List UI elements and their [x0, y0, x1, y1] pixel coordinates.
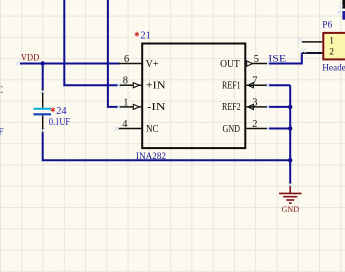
svg-text:-IN: -IN — [147, 102, 166, 113]
svg-text:2: 2 — [329, 48, 334, 58]
wire REF1 to bus — [268, 84, 290, 86]
connector P6 — [322, 20, 345, 72]
svg-text:REF2: REF2 — [222, 102, 241, 113]
wire capacitor bottom to GND rail — [43, 133, 291, 160]
marker P6 pin 2 joint — [301, 49, 305, 53]
node VDD junction — [41, 61, 45, 65]
svg-text:INA282: INA282 — [136, 151, 167, 161]
svg-text:GND: GND — [282, 204, 299, 214]
pin 7 REF1 — [222, 76, 268, 92]
svg-text:1: 1 — [329, 36, 334, 46]
svg-text:NC: NC — [146, 124, 159, 135]
cut-off component top right navy — [342, 11, 345, 20]
svg-text:0.1UF: 0.1UF — [49, 117, 71, 128]
marker VDD wire end — [15, 61, 19, 65]
ground symbol GND — [279, 183, 302, 214]
svg-text:V+: V+ — [146, 59, 159, 70]
pin 6 V+ — [119, 54, 159, 70]
svg-text:P6: P6 — [322, 20, 332, 30]
svg-text:GND: GND — [223, 124, 241, 135]
pin 1 -IN — [119, 97, 166, 113]
marker pin 4 end — [114, 126, 118, 130]
wire OUT to ISE net — [268, 53, 322, 64]
capacitor C24 — [34, 89, 52, 134]
svg-text:OUT: OUT — [220, 59, 240, 70]
svg-text:+IN: +IN — [146, 81, 166, 92]
pin 5 OUT — [220, 54, 268, 70]
part name INA282 — [136, 151, 167, 161]
svg-text:6: 6 — [124, 54, 129, 65]
cut-off text C left edge — [0, 85, 3, 95]
svg-text:7: 7 — [252, 76, 257, 87]
svg-text:1: 1 — [123, 97, 128, 108]
marker pin 5 wire joint — [266, 61, 270, 65]
svg-text:REF1: REF1 — [222, 81, 241, 92]
net label VDD — [21, 52, 39, 63]
svg-text:8: 8 — [123, 76, 128, 87]
pin 3 REF2 — [222, 97, 268, 113]
svg-text:Header 2: Header 2 — [322, 62, 345, 72]
pin 8 +IN — [119, 76, 166, 92]
svg-text:4: 4 — [122, 119, 128, 130]
marker cap bottom pin — [41, 128, 45, 132]
value 0.1UF — [49, 117, 71, 128]
wire pin2 GND to bus — [268, 128, 290, 130]
svg-text:C: C — [0, 85, 3, 95]
marker GND stem joint — [288, 183, 292, 187]
wire right bus vertical — [289, 85, 291, 184]
marker pin 8 wire joint — [117, 83, 121, 87]
node bus GND pin — [288, 126, 292, 130]
pin 2 GND — [223, 119, 269, 135]
cut-off text F left edge — [0, 127, 4, 137]
svg-text:F: F — [0, 127, 4, 137]
pin 2 of P6 — [302, 52, 323, 54]
designator *24 — [51, 106, 68, 117]
designator *21 — [135, 31, 151, 42]
node bus REF2 — [288, 105, 292, 109]
wire vertical from top to -IN — [108, 0, 119, 107]
wire REF2 to bus — [268, 106, 290, 108]
cut-off component top right black — [342, 0, 345, 9]
marker pin 3 wire joint — [266, 105, 270, 109]
svg-text:5: 5 — [254, 54, 259, 65]
marker cap top pin — [41, 89, 45, 93]
marker P6 pin 1 end — [297, 38, 301, 42]
marker pin 1 wire joint — [117, 105, 121, 109]
marker pin 2 wire joint — [266, 126, 270, 130]
marker top right corner — [338, 6, 343, 14]
node bus bottom rail — [288, 158, 292, 162]
svg-text:2: 2 — [252, 119, 257, 130]
wire vertical from top to +IN — [64, 0, 118, 85]
svg-text:3: 3 — [252, 97, 257, 108]
svg-text:24: 24 — [56, 106, 67, 117]
marker pin 7 wire joint — [266, 83, 270, 87]
wire capacitor top — [42, 63, 44, 90]
svg-text:21: 21 — [140, 31, 150, 42]
svg-text:VDD: VDD — [21, 52, 39, 63]
pin 4 NC — [119, 119, 159, 135]
net label ISE — [268, 54, 286, 65]
op-amp U21 INA282 body — [142, 44, 245, 149]
wire VDD horizontal rail to pin 6 — [20, 63, 120, 65]
svg-text:ISE: ISE — [268, 54, 286, 65]
pin 1 of P6 — [302, 41, 323, 43]
